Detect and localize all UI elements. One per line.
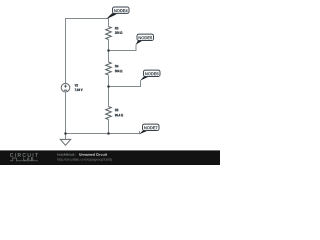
- label 264 ohm: [115, 31, 122, 33]
- resistor R3: [106, 27, 112, 40]
- footer author gray: [57, 153, 76, 156]
- node NODE7: [139, 124, 159, 134]
- wire chain top segment: [108, 19, 110, 27]
- label R5: [115, 109, 118, 111]
- label 86.4 ohm: [115, 114, 123, 116]
- junction below R4: [107, 85, 110, 88]
- wire top horizontal: [66, 18, 109, 20]
- wire below R5: [108, 120, 110, 134]
- footer logo wave: [10, 158, 38, 161]
- label V2: [75, 84, 78, 86]
- voltage source V2: [61, 83, 70, 92]
- ground: [60, 139, 70, 145]
- wire left vertical to source top: [65, 18, 67, 84]
- wire R4 to R5: [108, 76, 110, 107]
- junction below R3: [107, 49, 110, 52]
- wire branch to NODE5: [109, 45, 137, 51]
- wire branch to NODE6: [109, 81, 141, 87]
- wire branch to NODE7: [109, 131, 140, 134]
- resistor R5: [106, 107, 112, 120]
- node NODE6: [140, 70, 160, 81]
- wire bottom rail: [66, 133, 110, 135]
- footer author circuit name: [79, 153, 107, 156]
- footer bar: [0, 150, 220, 165]
- junction below R5: [107, 132, 110, 135]
- label R4: [115, 65, 118, 67]
- wire source bottom to ground: [65, 92, 67, 139]
- footer logo CIRCUIT: [10, 153, 38, 157]
- footer logo LAB: [24, 157, 34, 160]
- label 7.64 V: [75, 89, 83, 91]
- label R3: [115, 27, 118, 29]
- node NODE4: [107, 7, 130, 19]
- resistor R4: [106, 62, 112, 75]
- junction ground rail: [64, 132, 67, 135]
- label 564 ohm: [115, 70, 122, 72]
- wire R3 to R4: [108, 40, 110, 63]
- node NODE5: [136, 34, 154, 45]
- footer url: [57, 158, 112, 161]
